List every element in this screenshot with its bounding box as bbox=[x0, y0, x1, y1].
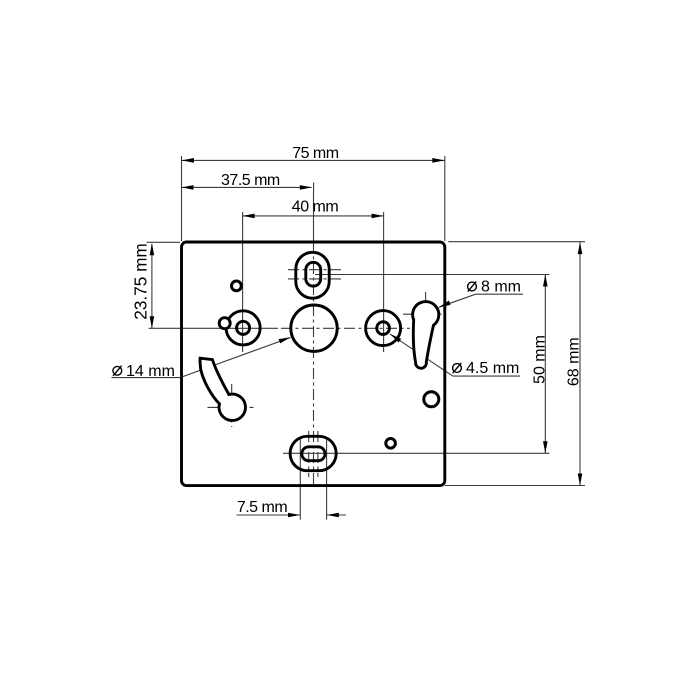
svg-text:75 mm: 75 mm bbox=[292, 145, 339, 162]
svg-text:68 mm: 68 mm bbox=[565, 337, 582, 386]
svg-text:4.5 mm: 4.5 mm bbox=[466, 360, 519, 377]
svg-text:40 mm: 40 mm bbox=[292, 198, 339, 215]
svg-text:50 mm: 50 mm bbox=[531, 335, 548, 384]
svg-text:23.75 mm: 23.75 mm bbox=[131, 243, 151, 319]
svg-text:7.5 mm: 7.5 mm bbox=[237, 499, 288, 516]
svg-text:8 mm: 8 mm bbox=[481, 278, 521, 295]
svg-text:37.5 mm: 37.5 mm bbox=[221, 172, 280, 189]
svg-text:14 mm: 14 mm bbox=[126, 363, 175, 380]
